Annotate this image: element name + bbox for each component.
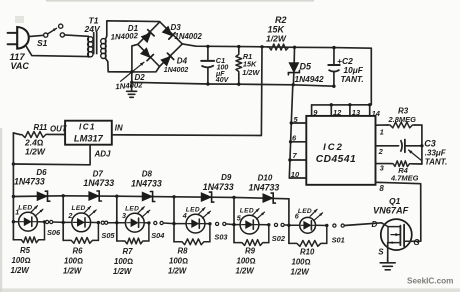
- label pin 12: [333, 108, 342, 117]
- svg-text:C3: C3: [424, 138, 436, 148]
- label T1: [89, 16, 99, 26]
- node D5 top: [293, 46, 296, 49]
- svg-text:IC2: IC2: [323, 142, 344, 153]
- svg-text:LED: LED: [125, 206, 139, 213]
- wire junction down to ground rail: [131, 72, 133, 82]
- svg-text:D8: D8: [142, 169, 153, 178]
- node pin 7: [288, 158, 291, 161]
- diode D3: [162, 26, 175, 39]
- label D6: [36, 168, 47, 177]
- arrow C3 label to cap: [409, 150, 422, 161]
- wire ADJ: [13, 145, 90, 165]
- svg-text:1/2W: 1/2W: [63, 267, 82, 276]
- node cell2 LED left: [62, 221, 65, 224]
- label R4: [398, 166, 408, 175]
- label R1: [242, 52, 260, 77]
- resistor R7: [117, 223, 149, 244]
- svg-text:D4: D4: [177, 56, 188, 65]
- node cell1 LED left: [12, 220, 15, 223]
- LED 5: [234, 209, 269, 234]
- svg-text:R9: R9: [245, 247, 256, 256]
- svg-text:1/2W: 1/2W: [242, 68, 260, 77]
- label D3: [171, 23, 182, 32]
- svg-text:S04: S04: [151, 231, 164, 240]
- svg-text:3: 3: [122, 211, 126, 220]
- label D9 1N4733: [203, 182, 234, 192]
- label D6 1N4733: [14, 177, 45, 187]
- svg-text:R7: R7: [123, 247, 134, 256]
- svg-text:100Ω: 100Ω: [169, 256, 188, 265]
- label pin 3: [380, 164, 385, 173]
- label pin 1: [380, 128, 384, 137]
- svg-text:100Ω: 100Ω: [114, 257, 133, 266]
- svg-text:LM317: LM317: [74, 134, 104, 144]
- ground under Q1: [380, 258, 395, 270]
- wire socket to cell2: [53, 221, 63, 223]
- node R1 bottom: [237, 83, 240, 86]
- IC U1 LM317 box: [65, 121, 112, 145]
- capacitor C3: [401, 140, 422, 153]
- label pin 2: [378, 147, 384, 156]
- label LED2: [67, 205, 85, 220]
- wire cell6 left: [288, 225, 290, 243]
- label D4: [177, 56, 188, 65]
- label R2: [266, 15, 287, 43]
- capacitor C2: [328, 48, 339, 87]
- label S01: [332, 235, 345, 244]
- svg-text:LED: LED: [186, 206, 200, 213]
- node cell6 top: [0, 0, 1, 1]
- svg-text:Q1: Q1: [389, 196, 401, 206]
- svg-text:LED: LED: [72, 205, 86, 212]
- node cell3 LED right: [147, 221, 150, 224]
- capacitor C1: [201, 46, 214, 84]
- svg-text:40V: 40V: [215, 77, 230, 84]
- resistor R5: [13, 222, 44, 243]
- wire bridge left vertex to AC node: [132, 44, 138, 72]
- node pin 6: [289, 140, 292, 143]
- label 24V: [84, 24, 101, 34]
- label R8: [168, 247, 188, 276]
- resistor R8: [174, 224, 210, 245]
- wire plug to S1: [29, 35, 44, 36]
- svg-text:1N4733: 1N4733: [131, 178, 162, 188]
- label D1 1N4002: [110, 31, 138, 41]
- socket S03: [216, 222, 226, 225]
- svg-text:2: 2: [67, 211, 72, 220]
- svg-text:R11: R11: [34, 123, 48, 132]
- switch S1: [44, 24, 65, 37]
- label pin 5: [294, 115, 299, 124]
- scan smudge top edge: [46, 0, 314, 2]
- label ADJ: [94, 149, 112, 158]
- label D5 1N4942: [295, 74, 324, 84]
- svg-text:1/2W: 1/2W: [266, 34, 287, 44]
- wire cell1 left: [12, 197, 14, 240]
- svg-text:8: 8: [379, 184, 384, 193]
- node cell1 LED right: [43, 220, 46, 223]
- svg-text:D10: D10: [258, 174, 273, 183]
- svg-text:100Ω: 100Ω: [12, 256, 31, 265]
- svg-text:IN: IN: [115, 123, 123, 132]
- ground under bridge: [127, 82, 137, 97]
- node cell3 LED left: [115, 221, 118, 224]
- svg-text:IC1: IC1: [79, 122, 96, 131]
- svg-text:1/2W: 1/2W: [168, 267, 187, 276]
- node cell2 top: [62, 194, 65, 197]
- label pin 7: [293, 151, 298, 160]
- node ADJ junction: [12, 162, 15, 165]
- node pin bus 13: [348, 103, 351, 106]
- wire socket to cell4: [163, 222, 174, 225]
- node AC-ground junction: [130, 70, 133, 73]
- svg-text:.33μF: .33μF: [425, 148, 447, 157]
- node cell5 top: [232, 196, 235, 199]
- label D9: [221, 173, 232, 182]
- node D5 bottom: [292, 83, 295, 86]
- svg-text:2.8MEG: 2.8MEG: [388, 115, 417, 124]
- node cell1 top: [12, 195, 15, 198]
- svg-text:1/2W: 1/2W: [25, 146, 46, 156]
- svg-text:1N4002: 1N4002: [175, 32, 203, 41]
- svg-text:LED: LED: [298, 208, 312, 215]
- svg-text:3: 3: [380, 164, 385, 173]
- svg-text:ADJ: ADJ: [94, 149, 112, 158]
- wire pin 8 to Q1 gate: [376, 182, 421, 241]
- node cell6 LED left: [287, 224, 290, 227]
- wire zener top rail: [13, 196, 289, 226]
- svg-text:1: 1: [380, 128, 384, 137]
- node cell5 LED left: [232, 223, 235, 226]
- label R11: [34, 123, 68, 134]
- label C2: [337, 56, 364, 84]
- wire positive top rail: [182, 44, 371, 48]
- svg-text:1/2W: 1/2W: [11, 266, 30, 275]
- label LED4: [182, 206, 200, 220]
- zener diode D9: [201, 192, 214, 202]
- label VN67AF: [373, 206, 409, 216]
- label D8: [142, 169, 153, 178]
- svg-text:1N4733: 1N4733: [249, 182, 280, 192]
- node cell2 LED right: [97, 221, 100, 224]
- label IN: [115, 123, 123, 132]
- label D10: [258, 174, 273, 183]
- label C3 .33uF: [425, 148, 447, 157]
- zener diode D7: [89, 191, 102, 201]
- node R2 left: [260, 45, 263, 48]
- svg-text:1N4733: 1N4733: [83, 178, 114, 188]
- label S02: [272, 234, 286, 243]
- label R4 4.7MEG: [390, 174, 419, 183]
- label S1: [37, 38, 48, 48]
- label C3: [424, 138, 436, 148]
- wire IC1 IN to +V: [112, 134, 262, 137]
- svg-text:S: S: [378, 247, 384, 256]
- label LED3: [122, 206, 139, 221]
- svg-text:S02: S02: [272, 234, 286, 243]
- wire oscillator node: [421, 125, 423, 164]
- label R3 2.8MEG: [388, 115, 417, 124]
- LED 1: [13, 206, 44, 231]
- svg-text:1N4733: 1N4733: [14, 177, 45, 187]
- wire T1 secondary top to bridge top rail: [106, 21, 160, 39]
- node cell3 top: [115, 195, 118, 198]
- node cell4 top: [172, 195, 175, 198]
- label LED6: [295, 208, 312, 220]
- svg-text:G: G: [413, 238, 419, 247]
- svg-text:100Ω: 100Ω: [237, 256, 256, 265]
- wire IC2 left pin bus: [289, 85, 306, 178]
- node pin bus 12: [330, 103, 333, 106]
- zener diode D8: [142, 192, 155, 202]
- label S04: [151, 231, 164, 240]
- LED 4: [174, 208, 211, 233]
- label pin 8: [379, 184, 384, 193]
- LED 3: [117, 207, 150, 232]
- svg-text:VAC: VAC: [11, 61, 30, 71]
- svg-text:1N4002: 1N4002: [164, 67, 189, 74]
- node cell4 LED left: [172, 222, 175, 225]
- label D3 1N4002: [175, 32, 203, 41]
- wire S01 to Q1 drain: [344, 223, 381, 226]
- wire cell3 left: [116, 196, 118, 241]
- svg-text:1N4942: 1N4942: [295, 74, 324, 84]
- wire S1 to T1 primary: [65, 35, 89, 36]
- node cell5 LED right: [267, 223, 270, 226]
- node C3 right: [420, 144, 423, 147]
- label Q1: [389, 196, 401, 206]
- svg-text:TANT.: TANT.: [425, 157, 447, 166]
- svg-text:7: 7: [293, 151, 298, 160]
- resistor R6: [63, 223, 98, 244]
- svg-text:CD4541: CD4541: [316, 154, 356, 165]
- svg-text:R6: R6: [73, 247, 84, 256]
- svg-text:1/2W: 1/2W: [113, 267, 132, 276]
- wire +V rail to pin 14: [370, 48, 372, 105]
- svg-text:100Ω: 100Ω: [64, 256, 83, 265]
- svg-text:100Ω: 100Ω: [292, 257, 311, 266]
- svg-text:TANT.: TANT.: [341, 74, 364, 84]
- label IC1: [79, 122, 96, 131]
- svg-text:D9: D9: [221, 173, 232, 182]
- label R6: [63, 247, 83, 276]
- label D4 1N4002: [164, 67, 189, 74]
- watermark SeekIC.com: [407, 277, 453, 286]
- label R7: [113, 247, 133, 276]
- svg-text:S1: S1: [37, 38, 48, 48]
- node pin 5: [290, 121, 293, 124]
- arrow D2 label to diode: [121, 62, 145, 81]
- IC U2 CD4541 box: [306, 116, 375, 185]
- svg-text:R10: R10: [300, 248, 315, 257]
- node cell4 LED right: [208, 222, 211, 225]
- label pin 9: [313, 108, 318, 117]
- svg-text:1/2W: 1/2W: [236, 267, 255, 276]
- node pin bus 14: [368, 103, 371, 106]
- transistor Q1 VN67AF: [381, 219, 412, 262]
- svg-text:LED: LED: [240, 207, 254, 214]
- resistor R9: [234, 225, 269, 246]
- label D5: [300, 62, 312, 72]
- svg-text:S06: S06: [47, 228, 61, 237]
- node C2 top: [332, 46, 335, 49]
- resistor R2: [267, 44, 291, 50]
- label R11 value: [24, 137, 46, 156]
- transformer T1: [88, 33, 107, 59]
- socket S05: [101, 221, 108, 224]
- wire IC2 top pin bus: [312, 105, 370, 116]
- socket S06: [46, 220, 53, 223]
- svg-text:LED: LED: [18, 205, 32, 212]
- svg-text:D5: D5: [300, 62, 312, 72]
- scan smudge top-left: [15, 16, 24, 23]
- wire OUT rail corner: [13, 133, 20, 135]
- zener diode D6: [37, 191, 50, 201]
- label D2: [135, 73, 146, 82]
- wire pin1 to R3: [376, 124, 389, 126]
- wire socket to cell5: [226, 223, 234, 226]
- svg-text:D3: D3: [171, 23, 182, 32]
- svg-text:D7: D7: [93, 169, 104, 178]
- diode D2: [141, 48, 154, 61]
- wire bridge diamond: [138, 22, 183, 67]
- svg-text:1N4733: 1N4733: [203, 182, 234, 192]
- label S: [378, 247, 384, 256]
- resistor R11: [20, 132, 65, 138]
- AC plug P1: [8, 27, 29, 49]
- wire socket to cell6: [284, 224, 289, 226]
- label R5: [11, 246, 31, 275]
- node R1 top: [237, 45, 240, 48]
- label C1: [215, 56, 230, 84]
- label R9: [236, 247, 256, 276]
- resistor R10: [289, 226, 327, 247]
- label D1: [128, 24, 139, 33]
- label D7: [93, 169, 104, 178]
- wire socket to cell3: [108, 222, 117, 224]
- label D: [372, 220, 378, 229]
- wire +V down to IC1 IN: [260, 47, 263, 135]
- svg-text:S01: S01: [332, 235, 345, 244]
- zener diode D10: [263, 193, 276, 203]
- node cell6 LED right: [325, 224, 328, 227]
- LED 2: [63, 206, 98, 231]
- svg-text:R5: R5: [20, 246, 31, 255]
- resistor R3: [388, 122, 422, 128]
- svg-text:S03: S03: [214, 232, 228, 241]
- wire plug bottom to T1: [27, 47, 89, 57]
- label LM317: [74, 134, 104, 144]
- label R10: [291, 248, 315, 277]
- label pin 6: [292, 133, 297, 142]
- scan smudge left edge: [0, 128, 2, 292]
- svg-text:D: D: [372, 220, 378, 229]
- label S03: [214, 232, 228, 241]
- socket S01: [333, 224, 345, 227]
- label G: [413, 238, 419, 247]
- svg-text:24V: 24V: [84, 24, 101, 34]
- wire ground rail: [132, 82, 334, 86]
- wire T1 secondary bottom: [106, 59, 132, 72]
- scan smudge bottom edge: [0, 288, 460, 292]
- wire pin3 to R4: [376, 163, 392, 165]
- wire cell5 left: [233, 197, 235, 242]
- svg-text:1/2W: 1/2W: [291, 268, 310, 277]
- node C1 bottom: [206, 82, 209, 85]
- label LED5: [237, 207, 254, 222]
- svg-text:R8: R8: [178, 247, 189, 256]
- svg-text:10: 10: [291, 170, 300, 179]
- svg-text:S05: S05: [101, 231, 115, 240]
- label S05: [101, 231, 115, 240]
- label CD4541: [316, 154, 356, 165]
- node C2 bottom: [332, 85, 335, 88]
- label D10 1N4733: [249, 182, 280, 192]
- label IC2: [323, 142, 344, 153]
- diode D4: [161, 53, 174, 66]
- svg-text:SeekIC.com: SeekIC.com: [407, 277, 453, 286]
- wire cell4 left: [173, 197, 175, 242]
- node C1 top: [206, 45, 209, 48]
- svg-text:6: 6: [292, 133, 297, 142]
- svg-text:2: 2: [378, 147, 384, 156]
- resistor R1: [236, 47, 242, 85]
- svg-text:1N4002: 1N4002: [110, 31, 138, 41]
- label 117 VAC: [10, 52, 30, 71]
- label C3 TANT: [425, 157, 447, 166]
- label pin 14: [372, 109, 381, 118]
- socket S04: [154, 221, 164, 224]
- zener diode D5: [288, 47, 299, 85]
- svg-text:1: 1: [15, 208, 19, 217]
- label S06: [47, 228, 61, 237]
- label D7 1N4733: [83, 178, 114, 188]
- svg-text:4: 4: [182, 211, 187, 220]
- wire cell2 left: [62, 196, 64, 241]
- label D8 1N4733: [131, 178, 162, 188]
- label D2 1N4002: [115, 80, 144, 91]
- resistor R4: [391, 161, 422, 167]
- LED 6: [289, 209, 327, 233]
- svg-text:VN67AF: VN67AF: [373, 206, 409, 216]
- wire bridge bottom vertex to ground node: [132, 67, 160, 72]
- socket S02: [274, 223, 284, 226]
- wire pin2 to C3: [376, 145, 399, 147]
- svg-text:4.7MEG: 4.7MEG: [390, 174, 419, 183]
- node ground rail left end: [130, 81, 133, 84]
- diode D1: [141, 30, 154, 43]
- label pin 13: [352, 108, 361, 117]
- label R3: [398, 107, 409, 116]
- wire left rail down: [12, 133, 14, 198]
- label pin 10: [291, 170, 300, 179]
- label LED1: [15, 205, 32, 217]
